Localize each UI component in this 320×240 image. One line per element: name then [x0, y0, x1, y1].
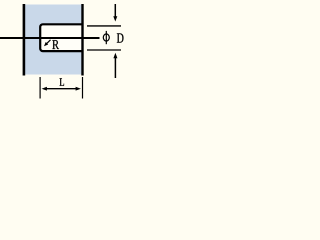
- top extension line of diameter: [87, 25, 121, 27]
- label L: [60, 78, 65, 86]
- L right extension line: [82, 77, 84, 99]
- plate left edge line: [23, 4, 26, 76]
- label D: [117, 33, 124, 42]
- diameter dimension bottom arrow (stem): [114, 58, 116, 78]
- plate right edge line: [81, 4, 83, 76]
- label R: [52, 40, 59, 49]
- diameter dimension top arrowhead: [113, 16, 117, 21]
- radius leader line: [46, 40, 50, 44]
- centerline (hole axis): [0, 37, 100, 39]
- background: [0, 0, 127, 100]
- radius leader arrowhead: [44, 42, 48, 46]
- phi symbol (drawn): [103, 31, 109, 44]
- bottom extension line of diameter: [87, 49, 121, 51]
- diameter dimension bottom arrowhead: [113, 53, 117, 59]
- L dimension right arrowhead: [76, 87, 81, 91]
- L dimension left arrowhead: [42, 87, 47, 91]
- plate (blue cross-section): [25, 5, 82, 75]
- hole (counterbore cavity, rounded left end): [40, 24, 82, 51]
- L dimension line: [45, 88, 78, 90]
- diameter dimension top arrow (stem): [114, 4, 116, 17]
- L left extension line: [39, 77, 41, 99]
